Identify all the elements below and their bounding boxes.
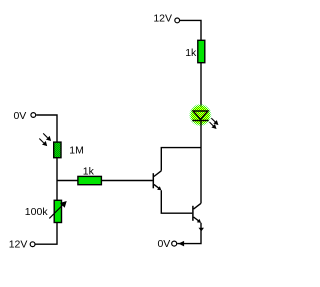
svg-text:1M: 1M	[69, 144, 84, 156]
preset 100k body	[54, 200, 61, 222]
wire LED to collectors rail	[200, 121, 202, 204]
resistor 1k (collector)	[198, 40, 205, 62]
svg-text:12V: 12V	[9, 239, 28, 251]
node 0V bottom-right terminal	[172, 241, 177, 246]
LDR body (1M)	[54, 142, 61, 158]
current arrow down	[199, 228, 205, 232]
wire 0V terminal to left rail	[36, 115, 57, 143]
svg-text:1k: 1k	[83, 165, 95, 177]
LDR light arrows	[39, 133, 50, 145]
wire preset to 12V terminal	[35, 223, 57, 245]
svg-text:12V: 12V	[153, 13, 172, 25]
node 12V bottom-left terminal	[30, 242, 35, 247]
preset 100k arrow	[49, 202, 66, 219]
wire base resistor to Q1 base	[101, 180, 152, 182]
wire Q1 emitter to Q2 base	[161, 190, 192, 213]
wire T-branch to Q1 collector	[161, 148, 201, 171]
wire 12V terminal to collector resistor	[180, 20, 201, 40]
wire junction to base resistor	[57, 180, 79, 182]
wire LDR to junction to preset	[56, 158, 58, 201]
svg-text:0V: 0V	[13, 110, 26, 122]
resistor 1k (base)	[78, 176, 102, 184]
LED D1 symbol	[192, 111, 208, 121]
wire Q2 emitter to 0V terminal	[177, 223, 201, 244]
node 12V top-right terminal	[175, 18, 180, 23]
svg-text:0V: 0V	[157, 238, 170, 250]
node 0V top-left terminal	[31, 113, 36, 118]
current arrow left	[178, 241, 184, 247]
transistor Q2	[193, 203, 201, 223]
wire resistor to LED	[200, 63, 202, 111]
svg-text:1k: 1k	[185, 47, 197, 59]
LED emission arrows	[210, 118, 218, 128]
LED glow	[190, 105, 210, 125]
svg-text:100k: 100k	[25, 206, 49, 218]
transistor Q1	[153, 171, 161, 191]
